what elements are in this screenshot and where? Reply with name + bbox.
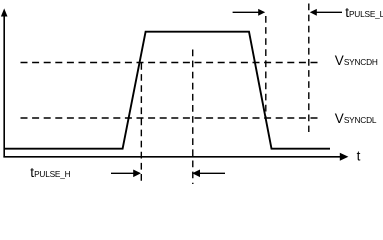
threshold dashed line VSYNCDH	[21, 62, 323, 64]
svg-text:t: t	[357, 148, 361, 163]
svg-text:VSYNCDH: VSYNCDH	[335, 53, 378, 68]
svg-text:VSYNCDL: VSYNCDL	[335, 111, 377, 126]
tPULSE_H right dimension arrow	[192, 170, 225, 178]
vertical dashed marker 3 (falling edge crosses VSYNCDL)	[265, 16, 267, 119]
vertical dashed marker 1 (rising edge crosses VSYNCDH)	[140, 63, 142, 184]
threshold dashed line VSYNCDL	[21, 117, 323, 119]
vertical dashed marker 2 (end of tPULSE_H)	[192, 50, 194, 185]
tPULSE_L left dimension arrow	[233, 9, 266, 16]
tPULSE_L right dimension arrow	[310, 9, 342, 16]
pulse waveform	[4, 32, 330, 149]
x axis (time axis)	[3, 153, 348, 161]
vertical dashed marker 4 (end of tPULSE_L)	[308, 4, 310, 133]
y axis	[1, 8, 8, 157]
tPULSE_H left dimension arrow	[111, 170, 141, 178]
svg-text:tPULSE_L: tPULSE_L	[345, 5, 383, 20]
svg-text:tPULSE_H: tPULSE_H	[30, 165, 70, 180]
